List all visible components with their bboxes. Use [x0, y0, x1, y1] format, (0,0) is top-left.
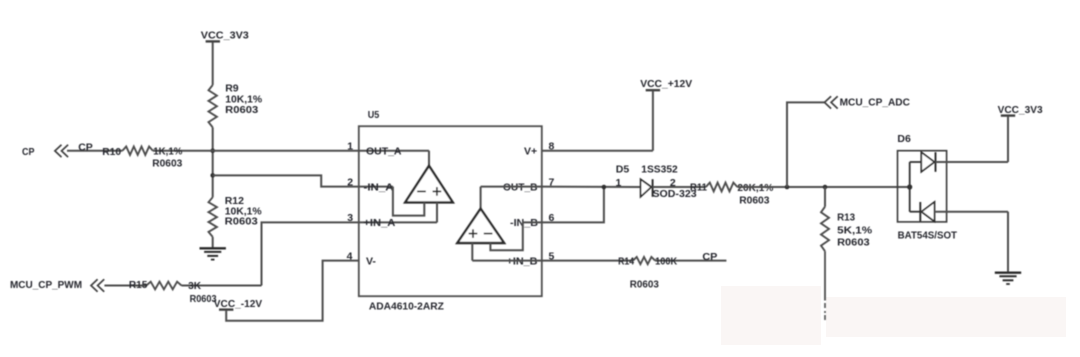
svg-text:MCU_CP_ADC: MCU_CP_ADC [840, 97, 911, 109]
svg-text:V-: V- [366, 255, 376, 267]
svg-text:1: 1 [347, 141, 353, 153]
svg-text:MCU_CP_PWM: MCU_CP_PWM [10, 279, 82, 291]
svg-text:R14: R14 [618, 256, 634, 268]
svg-text:CP: CP [702, 251, 717, 263]
svg-text:BAT54S/SOT: BAT54S/SOT [898, 230, 958, 242]
svg-text:5K,1%: 5K,1% [837, 224, 873, 236]
svg-text:VCC_+12V: VCC_+12V [640, 78, 692, 90]
svg-text:4: 4 [347, 250, 353, 262]
svg-text:R0603: R0603 [630, 278, 659, 290]
svg-text:3: 3 [347, 212, 353, 224]
svg-text:ADA4610-2ARZ: ADA4610-2ARZ [369, 300, 445, 312]
svg-text:CP: CP [78, 141, 93, 153]
svg-text:R0603: R0603 [225, 215, 258, 227]
svg-text:R15: R15 [129, 279, 148, 291]
svg-text:+IN_A: +IN_A [363, 217, 395, 229]
svg-text:R0603: R0603 [837, 237, 870, 249]
svg-text:-IN_A: -IN_A [364, 181, 394, 193]
svg-text:D5: D5 [616, 164, 630, 176]
svg-text:U5: U5 [368, 109, 380, 121]
svg-text:R13: R13 [837, 212, 855, 224]
svg-text:VCC_-12V: VCC_-12V [214, 298, 262, 310]
svg-text:100K: 100K [655, 256, 677, 268]
svg-text:V+: V+ [524, 145, 537, 157]
svg-text:R0603: R0603 [225, 104, 258, 116]
svg-text:1SS352: 1SS352 [641, 164, 678, 176]
svg-text:R0603: R0603 [739, 194, 769, 206]
svg-text:VCC_3V3: VCC_3V3 [201, 30, 249, 42]
svg-text:1: 1 [616, 177, 622, 189]
svg-text:1K,1%: 1K,1% [153, 146, 183, 158]
svg-text:D6: D6 [897, 133, 911, 145]
svg-text:R0603: R0603 [152, 157, 182, 169]
svg-text:R11: R11 [690, 182, 707, 194]
svg-text:OUT_A: OUT_A [366, 145, 402, 157]
svg-text:3K: 3K [188, 280, 201, 292]
svg-text:R10: R10 [102, 146, 121, 158]
svg-text:2: 2 [347, 176, 353, 188]
svg-text:VCC_3V3: VCC_3V3 [998, 104, 1043, 116]
svg-text:R0603: R0603 [190, 293, 217, 305]
svg-text:CP: CP [22, 146, 35, 158]
